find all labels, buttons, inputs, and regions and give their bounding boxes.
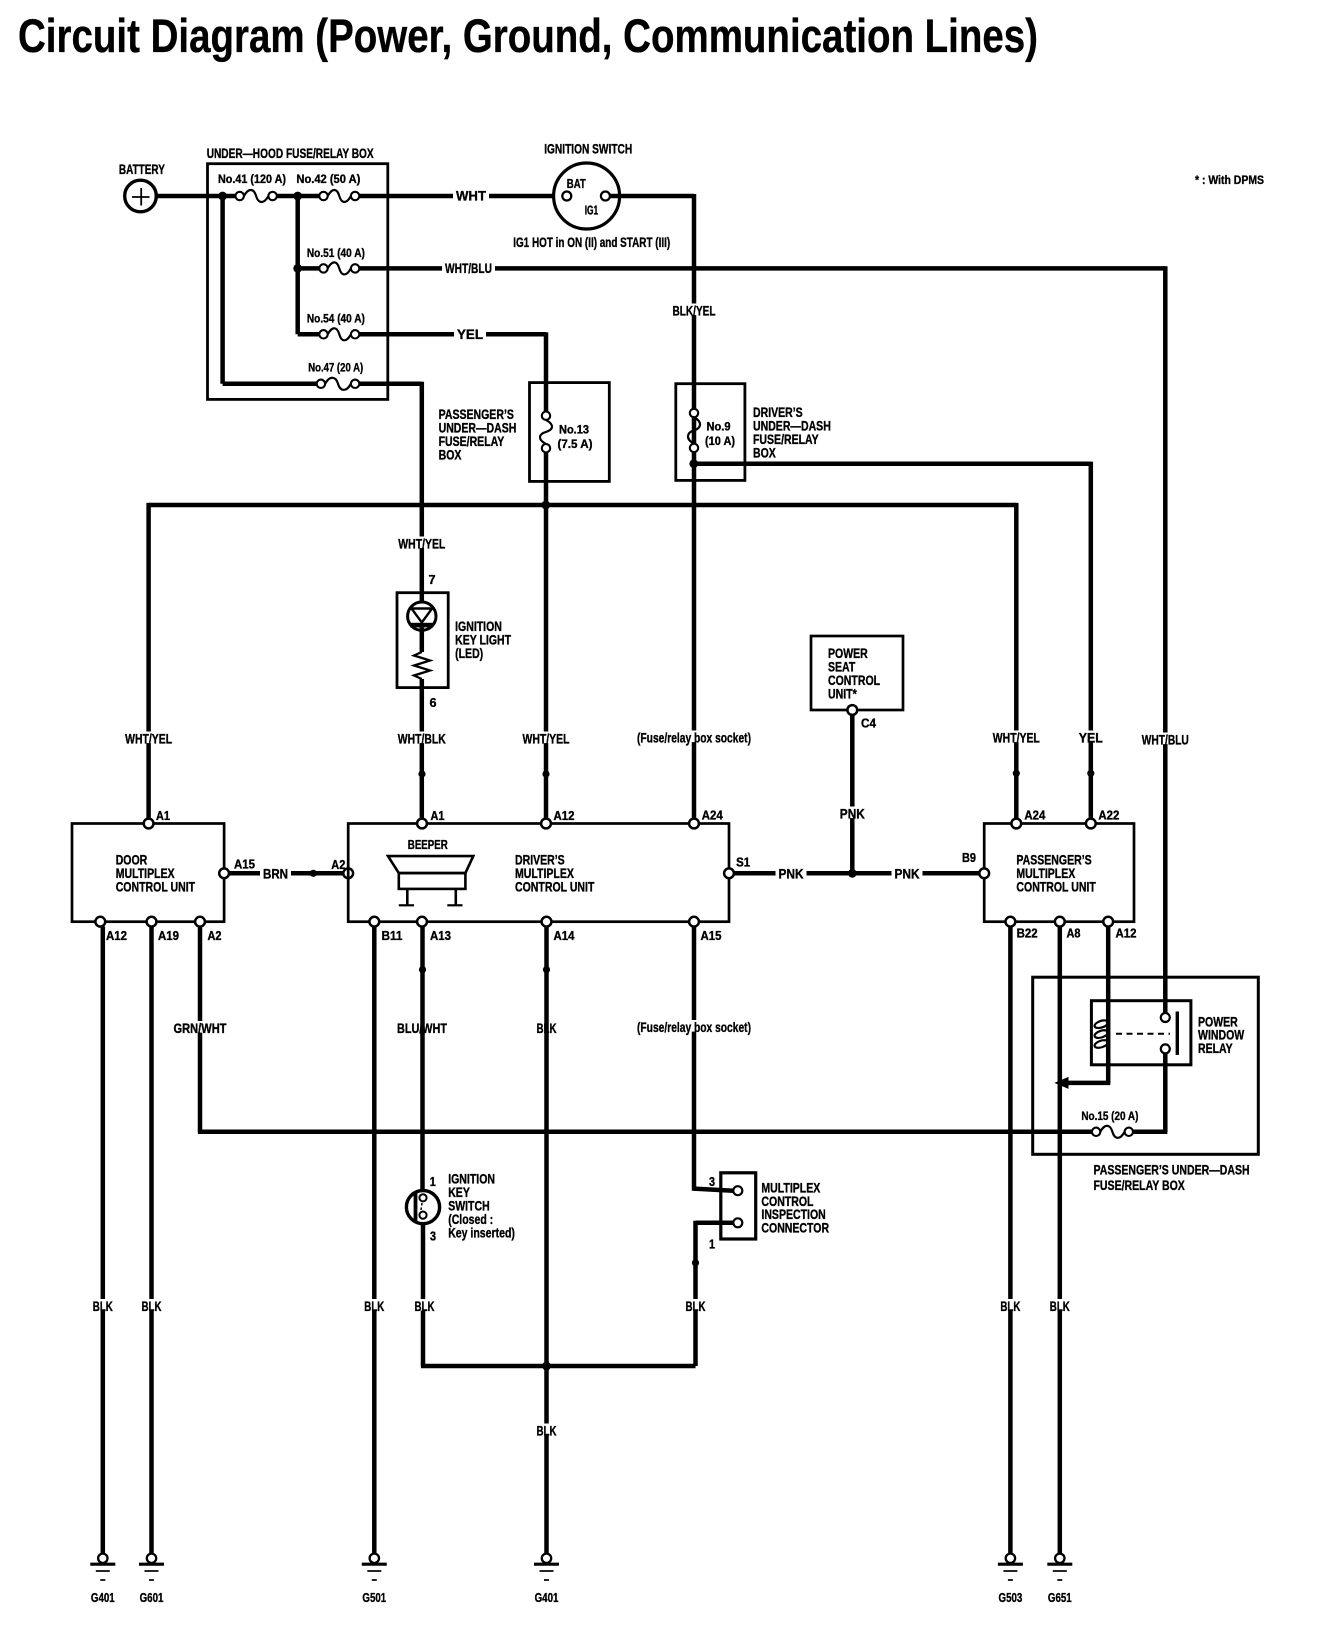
wire A8 to ground G651 (1058, 927, 1063, 1554)
ground G601 (door A19) (147, 1554, 156, 1563)
svg-text:WHT/BLU: WHT/BLU (445, 261, 492, 276)
svg-text:WHT/YEL: WHT/YEL (125, 732, 172, 747)
svg-text:A12: A12 (1116, 927, 1137, 941)
pin A24 passenger (1011, 819, 1021, 829)
driver's under-dash fuse/relay box (676, 384, 745, 481)
wire label BLK B11 (361, 1299, 387, 1311)
wire label BLU/WHT (394, 1021, 450, 1033)
node junction No.13 column (541, 501, 550, 510)
ground G651 (A8) (1055, 1554, 1064, 1563)
svg-text:A13: A13 (430, 929, 451, 943)
svg-text:BRN: BRN (263, 867, 288, 882)
svg-text:6: 6 (430, 696, 437, 710)
svg-text:PNK: PNK (895, 867, 920, 882)
svg-text:1: 1 (430, 1175, 436, 1189)
svg-text:IG1: IG1 (585, 204, 599, 218)
svg-text:A12: A12 (106, 929, 127, 943)
svg-text:WHT/YEL: WHT/YEL (523, 732, 570, 747)
svg-text:S1: S1 (736, 856, 750, 870)
pin A15 door (219, 868, 229, 878)
node connector bullet A12 column (542, 770, 549, 777)
wire WHT/BLU bus (359, 266, 1165, 271)
svg-text:IG1 HOT in ON (II) and START (: IG1 HOT in ON (II) and START (III) (513, 235, 670, 250)
svg-text:A24: A24 (1024, 809, 1045, 823)
svg-text:(Fuse/relay box socket): (Fuse/relay box socket) (637, 731, 751, 746)
pin A15 driver bottom (689, 917, 699, 927)
power window relay contact (1161, 1013, 1170, 1022)
svg-text:G401: G401 (535, 1591, 559, 1605)
wire PNK C4 column (850, 715, 855, 874)
svg-text:BLK: BLK (415, 1299, 435, 1314)
svg-text:BLK: BLK (537, 1424, 557, 1439)
fuse No.9 (10 A) (690, 409, 698, 417)
svg-text:BAT: BAT (567, 177, 586, 191)
wire No.47 to ignition key light (359, 382, 422, 387)
wire label WHT/YEL led column (395, 537, 448, 549)
node connector bullet WHT/YEL passenger (1013, 770, 1020, 777)
svg-text:YEL: YEL (1079, 731, 1103, 746)
wire label WHT/BLU (442, 261, 495, 273)
pin A1 door (144, 819, 154, 829)
svg-text:BLK: BLK (364, 1299, 384, 1314)
wire inspection connector pin 1 down (696, 1221, 734, 1226)
wire label WHT/YEL door (122, 732, 175, 744)
svg-text:BLK: BLK (686, 1299, 706, 1314)
svg-text:G651: G651 (1048, 1591, 1072, 1605)
wire label BLK pin1 column (683, 1299, 709, 1311)
under-hood fuse/relay box (208, 164, 388, 400)
node connector bullet A13 (419, 966, 426, 973)
passenger's multiplex control unit (984, 824, 1134, 922)
wire fuse41 to fuse42 (277, 194, 320, 199)
wire label fuse/relay box socket (634, 731, 754, 743)
wire label BLK B22 (997, 1299, 1023, 1311)
svg-text:BLK/YEL: BLK/YEL (673, 304, 716, 319)
wire relay coil to A8 column (1106, 1081, 1111, 1083)
pin A14 driver (542, 917, 552, 927)
wire A14 to ground G401 (544, 927, 549, 1554)
svg-text:No.15 (20 A): No.15 (20 A) (1081, 1109, 1138, 1123)
svg-text:G401: G401 (91, 1591, 115, 1605)
svg-text:(Fuse/relay box socket): (Fuse/relay box socket) (637, 1020, 751, 1035)
pin C4 (847, 705, 857, 715)
svg-text:No.42 (50 A): No.42 (50 A) (296, 172, 360, 186)
svg-text:No.13: No.13 (559, 423, 589, 437)
svg-text:(7.5 A): (7.5 A) (558, 437, 593, 451)
pin A24 driver (689, 819, 699, 829)
svg-text:PNK: PNK (779, 867, 804, 882)
svg-text:3: 3 (430, 1230, 436, 1244)
wire down to door MCU A1 (146, 503, 151, 819)
svg-text:BATTERY: BATTERY (119, 162, 165, 177)
wire YEL to No.13 (359, 332, 546, 337)
svg-text:BOX: BOX (753, 446, 776, 461)
driver's multiplex control unit (348, 824, 729, 922)
pin A19 door (147, 917, 157, 927)
wire LED to resistor (420, 627, 425, 652)
svg-text:G601: G601 (140, 1591, 164, 1605)
ignition key switch (406, 1191, 439, 1224)
resistor ignition key light (414, 652, 430, 679)
pin S1 driver (724, 868, 734, 878)
svg-text:CONTROL UNIT: CONTROL UNIT (1016, 880, 1096, 895)
door multiplex control unit (72, 824, 224, 922)
arrow to A8 wire (1054, 1077, 1068, 1089)
svg-text:A22: A22 (1098, 809, 1119, 823)
wire BRN (229, 871, 343, 876)
beeper (388, 856, 473, 873)
wire label WHT/BLK (395, 732, 449, 744)
svg-text:B22: B22 (1017, 927, 1038, 941)
power seat control unit (811, 636, 903, 710)
svg-text:BLK: BLK (1050, 1299, 1070, 1314)
LED ignition key light (408, 602, 436, 630)
svg-text:A14: A14 (554, 929, 575, 943)
wire label BLK door A12 (90, 1299, 116, 1311)
pin A2 driver left (343, 868, 353, 878)
svg-text:UNIT*: UNIT* (828, 687, 857, 702)
ground G401 (door A12) (98, 1554, 107, 1563)
node connector bullet A1 column (418, 770, 425, 777)
wire label fuse/relay box socket lower (634, 1020, 754, 1032)
svg-text:(LED): (LED) (455, 646, 483, 661)
wire label WHT/BLU right (1139, 733, 1192, 745)
passenger's under-dash fuse/relay box (lower) (1033, 977, 1259, 1154)
svg-text:A12: A12 (554, 809, 575, 823)
svg-text:3: 3 (709, 1175, 715, 1189)
wire label WHT (453, 189, 489, 201)
wire BLK/YEL vertical (692, 194, 697, 819)
pin B9 passenger (979, 868, 989, 878)
svg-text:BEEPER: BEEPER (408, 838, 448, 852)
node junction fuse42 feed (293, 192, 302, 201)
pin A12 door (95, 917, 105, 927)
wire label BLK A8 (1047, 1299, 1073, 1311)
wire label WHT/YEL no13 column (520, 732, 573, 744)
wire to fuse No.54 (298, 332, 320, 337)
wire vertical to No.47 (220, 196, 225, 384)
svg-text:BOX: BOX (439, 448, 462, 463)
node battery junction (218, 192, 227, 201)
node connector bullet pin1 column (692, 1259, 699, 1266)
wire resistor to A1 (420, 679, 425, 819)
wire long distribution line (149, 503, 1017, 508)
wire WHT/BLU down to relay (1163, 266, 1168, 1013)
svg-text:PNK: PNK (840, 807, 865, 822)
passenger's under-dash fuse/relay box (530, 383, 610, 482)
ground G501 (B11) (370, 1554, 379, 1563)
svg-text:YEL: YEL (457, 327, 483, 342)
wire label YEL (454, 327, 486, 339)
svg-text:BLK: BLK (142, 1299, 162, 1314)
svg-text:A8: A8 (1067, 927, 1081, 941)
wire label YEL right (1076, 731, 1106, 743)
node connector bullet YEL column (1087, 770, 1094, 777)
pin A2 door (195, 917, 205, 927)
wire No.13 output (544, 452, 549, 818)
wire B11 to ground G501 (372, 927, 377, 1554)
wire relay contact to fuse No.15 (1163, 1053, 1168, 1131)
svg-text:WHT/YEL: WHT/YEL (993, 731, 1040, 746)
wire battery to under-hood box (157, 194, 236, 199)
wire label BLK below junction (534, 1424, 560, 1436)
svg-text:PASSENGER’S UNDER—DASH: PASSENGER’S UNDER—DASH (1094, 1163, 1250, 1178)
ignition switch (554, 163, 620, 229)
wire to fuse No.47 (223, 382, 317, 387)
node connector bullet A14 (543, 966, 550, 973)
wire label PNK C4 (837, 807, 868, 819)
ground G401 (A14) (542, 1554, 551, 1563)
svg-text:GRN/WHT: GRN/WHT (174, 1021, 228, 1036)
pin A22 passenger (1086, 819, 1096, 829)
wire label BRN (260, 867, 291, 879)
svg-text:C4: C4 (861, 717, 876, 731)
wire label BLK/YEL (670, 304, 719, 316)
node junction BLK net (542, 1362, 551, 1371)
svg-text:A15: A15 (234, 858, 255, 872)
wire B22 to ground G503 (1008, 927, 1013, 1554)
svg-text:WHT/BLK: WHT/BLK (398, 732, 446, 747)
wire door A12 to ground G401 (101, 927, 106, 1554)
svg-text:WHT: WHT (456, 189, 487, 204)
svg-text:WHT/BLU: WHT/BLU (1142, 733, 1189, 748)
svg-text:Circuit Diagram (Power, Ground: Circuit Diagram (Power, Ground, Communic… (18, 9, 1038, 62)
wire label PNK left (776, 867, 807, 879)
svg-text:BLK: BLK (1000, 1299, 1020, 1314)
multiplex control inspection connector (721, 1173, 756, 1239)
svg-text:A24: A24 (702, 809, 723, 823)
svg-text:IGNITION SWITCH: IGNITION SWITCH (544, 142, 632, 157)
wire PNK S1 to B9 (734, 871, 980, 876)
svg-text:1: 1 (709, 1238, 715, 1252)
wire key switch to BLK net (421, 1224, 426, 1366)
svg-text:B11: B11 (382, 929, 403, 943)
svg-text:CONTROL UNIT: CONTROL UNIT (116, 880, 196, 895)
svg-text:(10 A): (10 A) (705, 434, 735, 448)
svg-text:A1: A1 (431, 809, 445, 823)
pin A13 driver (417, 917, 427, 927)
svg-text:A1: A1 (156, 809, 170, 823)
wire A13 to ignition key switch (420, 927, 425, 1192)
svg-text:No.51 (40 A): No.51 (40 A) (307, 246, 365, 260)
svg-text:A19: A19 (158, 929, 179, 943)
wire label BLK door A19 (139, 1299, 165, 1311)
svg-text:WHT/YEL: WHT/YEL (398, 537, 445, 552)
wire down to passenger MCU A24 (1014, 503, 1019, 819)
svg-text:No.9: No.9 (707, 420, 731, 434)
wire label BLK key switch (412, 1299, 438, 1311)
wire label PNK right (892, 867, 923, 879)
svg-text:CONTROL UNIT: CONTROL UNIT (515, 880, 595, 895)
svg-text:G503: G503 (999, 1591, 1023, 1605)
wire label WHT/YEL passenger (990, 731, 1043, 743)
pin B11 driver (369, 917, 379, 927)
power window relay coil (1094, 1019, 1109, 1030)
svg-text:No.41 (120 A): No.41 (120 A) (218, 172, 286, 186)
ground G503 (B22) (1006, 1554, 1015, 1563)
wire A12 passenger to relay coil (1106, 927, 1111, 1083)
node junction PNK (848, 869, 857, 878)
wire to fuse No.51 (298, 266, 320, 271)
svg-text:G501: G501 (362, 1591, 386, 1605)
pin B22 passenger (1006, 917, 1016, 927)
wire door A2 GRN/WHT to fuse No.15 (198, 927, 203, 1132)
pin A8 passenger (1055, 917, 1065, 927)
wire label GRN/WHT (171, 1021, 230, 1033)
pin A12 driver top (541, 819, 551, 829)
svg-text:CONNECTOR: CONNECTOR (761, 1220, 829, 1235)
svg-text:BLK: BLK (93, 1299, 113, 1314)
ignition key light box (397, 593, 448, 688)
wire No.9 output to YEL column (694, 461, 1091, 466)
node junction No.51 feed (293, 264, 302, 273)
wire IG1 to corner (610, 194, 694, 199)
wire label BLK A14 (534, 1021, 560, 1033)
pin A12 passenger (1103, 917, 1113, 927)
pin A1 driver (417, 819, 427, 829)
svg-text:A2: A2 (208, 929, 222, 943)
svg-text:RELAY: RELAY (1198, 1041, 1233, 1056)
wire A15 to inspection connector pin 3 (692, 927, 697, 1191)
wire WHT to ignition switch (359, 194, 562, 199)
node No.9 output junction (689, 459, 698, 468)
wire vertical junction column (295, 194, 300, 334)
svg-text:No.54 (40 A): No.54 (40 A) (307, 312, 365, 326)
svg-text:B9: B9 (962, 851, 976, 865)
svg-text:Key inserted): Key inserted) (448, 1226, 515, 1241)
svg-text:7: 7 (429, 573, 436, 587)
power window relay box (1091, 1001, 1191, 1065)
battery (125, 180, 157, 212)
svg-text:UNDER—HOOD FUSE/RELAY BOX: UNDER—HOOD FUSE/RELAY BOX (207, 146, 374, 161)
svg-text:* : With DPMS: * : With DPMS (1195, 173, 1264, 187)
wire door A19 to ground G601 (149, 927, 154, 1554)
fuse No.13 (7.5 A) (542, 412, 550, 420)
svg-text:FUSE/RELAY BOX: FUSE/RELAY BOX (1094, 1178, 1185, 1193)
node connector bullet BRN (310, 870, 317, 877)
svg-text:No.47 (20 A): No.47 (20 A) (308, 361, 363, 375)
power window relay dashed link (1116, 1033, 1170, 1035)
svg-text:A15: A15 (701, 929, 722, 943)
